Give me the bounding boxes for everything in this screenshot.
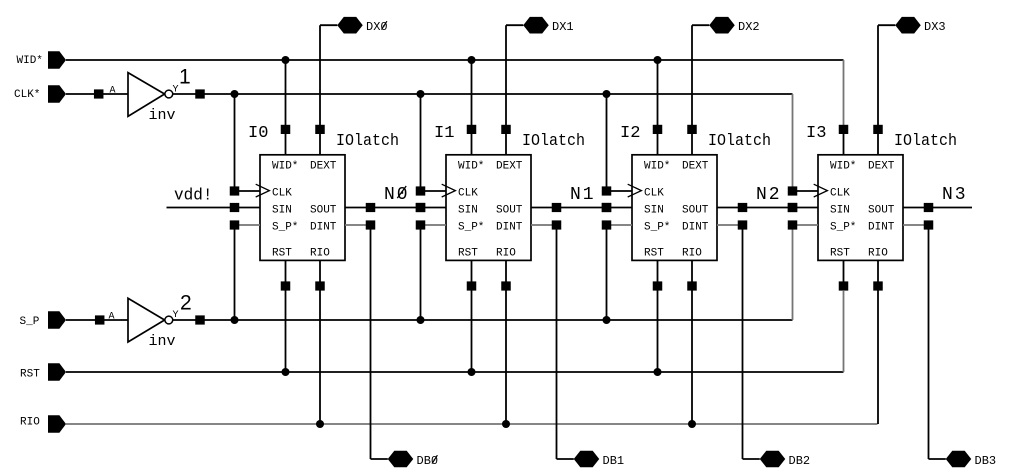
IOlatch I2 pin label WID* — [644, 160, 670, 172]
svg-text:DB1: DB1 — [603, 454, 625, 468]
junction on S_P* rail at I0 — [231, 316, 239, 324]
wire stub to I3 S_P* pin (gray) — [797, 224, 818, 226]
svg-text:I1: I1 — [434, 124, 455, 143]
wire DX3 to I3 DEXT pin — [877, 25, 879, 155]
solder square I1 CLK pin — [416, 186, 426, 195]
svg-text:IOlatch: IOlatch — [894, 131, 957, 150]
wire CLK rail corner down to I3 CLK pin (gray) — [792, 94, 794, 187]
wire stub to DB3 pin — [929, 458, 946, 460]
svg-text:RIO: RIO — [496, 248, 516, 260]
IOlatch I3 pin label DEXT — [868, 160, 895, 172]
svg-text:RST: RST — [830, 248, 850, 260]
IOlatch I1 pin label S_P* — [458, 221, 484, 233]
svg-text:RST: RST — [272, 248, 292, 260]
wire vdd! to I0 SIN — [167, 207, 261, 209]
junction on CLK rail at I0 — [231, 90, 239, 98]
instance name I3 — [806, 124, 827, 143]
IOlatch I0 pin label RST — [272, 248, 292, 260]
solder square I2 RST pin — [653, 281, 663, 290]
inverter U1 (inv) — [128, 73, 176, 124]
inverter U1 output label Y — [173, 85, 179, 96]
svg-text:I2: I2 — [620, 124, 641, 143]
wire net N2 from I2 SOUT to I3 SIN — [717, 207, 818, 209]
inverter U2 instance number 2 — [180, 292, 192, 315]
IOlatch I3 pin label S_P* — [830, 221, 856, 233]
solder square on CLK* wire — [94, 89, 104, 98]
wire I3 RST pin stub — [843, 260, 845, 286]
svg-text:N0: N0 — [384, 185, 410, 205]
wire I0 S_P* pin down to S_P* rail — [234, 229, 236, 320]
solder square I1 DINT pin — [552, 220, 562, 229]
wire RIO rail (gray) — [66, 423, 878, 425]
net label N1 — [570, 185, 596, 205]
svg-text:DINT: DINT — [496, 221, 523, 233]
wire I2 S_P* pin down to S_P* rail — [606, 229, 608, 320]
net label N3 — [942, 185, 968, 205]
wire stub to DB0 pin — [371, 458, 388, 460]
svg-text:DINT: DINT — [682, 221, 709, 233]
junction on WID* rail at I2 — [654, 56, 662, 64]
solder square on net N1 left — [552, 203, 562, 212]
wire CLK rail down to I0 CLK pin — [234, 94, 236, 187]
output pin DX2 — [709, 17, 735, 34]
wire I3 WID* pin stub — [843, 129, 845, 154]
svg-text:RIO: RIO — [310, 248, 330, 260]
svg-text:CLK: CLK — [830, 188, 850, 200]
junction on S_P* rail at I1 — [417, 316, 425, 324]
junction on RST rail at I0 — [282, 368, 290, 376]
cell name IOlatch of I1 — [522, 131, 585, 150]
output pin DB2 — [760, 451, 786, 468]
IOlatch I3 pin label WID* — [830, 160, 856, 172]
wire RST rail — [66, 371, 844, 373]
inverter U2 output label Y — [173, 310, 179, 321]
svg-text:2: 2 — [180, 292, 192, 315]
IOlatch I1 pin label WID* — [458, 160, 484, 172]
wire I2 DINT down to DB2 — [742, 229, 744, 459]
wire DX0 to I0 DEXT pin — [319, 25, 321, 155]
wire I2 RIO pin down to RIO rail — [691, 290, 693, 424]
IOlatch I3 pin label RIO — [868, 248, 888, 260]
solder square I0 DINT pin — [366, 220, 376, 229]
solder square on U1 output wire — [195, 89, 205, 98]
IOlatch I3 pin label DINT — [868, 221, 895, 233]
svg-text:inv: inv — [149, 107, 176, 124]
wire CLK* pin to inverter U1 input — [66, 93, 128, 95]
cell name IOlatch of I3 — [894, 131, 957, 150]
solder square I3 S_P* pin — [788, 220, 798, 229]
wire DX1 to I1 DEXT pin — [505, 25, 507, 155]
svg-text:DX1: DX1 — [552, 20, 574, 34]
IOlatch I1 pin label SIN — [458, 204, 478, 216]
svg-text:DEXT: DEXT — [310, 160, 337, 172]
solder square on S_P wire — [95, 315, 105, 324]
IOlatch I2 pin label DINT — [682, 221, 709, 233]
solder square I0 WID* pin — [281, 125, 291, 134]
inverter U2 input label A — [109, 312, 115, 323]
instance name I2 — [620, 124, 641, 143]
IOlatch I0 pin label SIN — [272, 204, 292, 216]
net label N0 — [384, 185, 410, 205]
svg-text:CLK*: CLK* — [14, 89, 40, 101]
svg-text:SIN: SIN — [644, 204, 664, 216]
wire I1 S_P* pin down to S_P* rail — [420, 229, 422, 320]
IOlatch I1 pin label RIO — [496, 248, 516, 260]
wire I1 RIO pin down to RIO rail — [505, 290, 507, 424]
inverter U2 (inv) — [128, 298, 176, 350]
pin label DB2 — [789, 454, 811, 468]
wire S_P* rail corner up to I3 S_P* pin (gray) — [792, 229, 794, 320]
wire I0 RST pin down to RST rail — [285, 290, 287, 372]
solder square I0 CLK pin — [230, 186, 240, 195]
IOlatch I2 pin label CLK — [644, 188, 664, 200]
solder square I2 RIO pin — [687, 281, 697, 290]
wire stub to DX2 pin — [692, 24, 709, 26]
output pin DX3 — [895, 17, 921, 34]
svg-text:DB2: DB2 — [789, 454, 811, 468]
wire I2 RST pin down to RST rail — [657, 290, 659, 372]
net label vdd! — [174, 187, 213, 206]
svg-text:1: 1 — [179, 66, 191, 89]
solder square I2 S_P* pin — [602, 220, 612, 229]
input pin RIO — [20, 415, 66, 433]
svg-text:DB3: DB3 — [975, 454, 997, 468]
solder square I2 DEXT pin — [687, 125, 697, 134]
solder square on net N2 right — [788, 203, 798, 212]
svg-text:N1: N1 — [570, 185, 596, 205]
solder square I3 CLK pin — [788, 186, 798, 195]
wire stub I3 DINT pin (gray) — [903, 224, 924, 226]
wire I0 DINT down to DB0 — [370, 229, 372, 459]
svg-text:DX0: DX0 — [366, 20, 388, 34]
wire RST rail corner up to I3 RST pin (gray) — [843, 290, 845, 372]
svg-text:RIO: RIO — [868, 248, 888, 260]
solder square I1 RIO pin — [501, 281, 511, 290]
solder square I0 SIN pin — [230, 203, 240, 212]
net label N2 — [756, 185, 782, 205]
svg-text:WID*: WID* — [458, 160, 484, 172]
solder square I0 S_P* pin — [230, 220, 240, 229]
solder square I1 WID* pin — [467, 125, 477, 134]
wire I1 RST pin stub — [471, 260, 473, 286]
wire WID* rail down to I0 WID* pin — [285, 60, 287, 155]
svg-text:S_P: S_P — [20, 316, 40, 328]
IOlatch I0 block body — [256, 155, 345, 261]
wire I3 DINT down to DB3 — [928, 229, 930, 459]
svg-text:WID*: WID* — [644, 160, 670, 172]
input pin CLK* — [14, 85, 66, 103]
wire inverter U2 output rail (S_P* net) — [173, 319, 793, 321]
svg-text:SOUT: SOUT — [682, 204, 709, 216]
svg-text:SIN: SIN — [830, 204, 850, 216]
output pin DB3 — [946, 451, 972, 468]
solder square on U2 output wire — [195, 315, 205, 324]
wire I0 RIO pin stub — [319, 260, 321, 286]
wire I1 RIO pin stub — [505, 260, 507, 286]
svg-text:SOUT: SOUT — [310, 204, 337, 216]
inverter U2 output bubble — [165, 316, 173, 324]
svg-text:RIO: RIO — [20, 417, 40, 429]
wire stub to DX3 pin — [878, 24, 895, 26]
wire stub I1 DINT pin (gray) — [531, 224, 552, 226]
solder square I3 RIO pin — [873, 281, 883, 290]
pin label DB0 — [417, 454, 439, 468]
inverter U1 instance number 1 — [179, 66, 191, 89]
wire stub to I3 CLK pin — [797, 190, 818, 192]
svg-text:DX2: DX2 — [738, 20, 760, 34]
svg-text:WID*: WID* — [272, 160, 298, 172]
svg-text:I0: I0 — [248, 124, 269, 143]
IOlatch I1 pin label DEXT — [496, 160, 523, 172]
IOlatch I3 pin label SIN — [830, 204, 850, 216]
input pin RST — [20, 363, 66, 381]
junction on RIO rail at I0 — [316, 420, 324, 428]
wire stub to I1 CLK pin — [425, 190, 446, 192]
IOlatch I3 block body — [814, 155, 903, 261]
cell name IOlatch of I2 — [708, 131, 771, 150]
wire I1 RST pin down to RST rail — [471, 290, 473, 372]
IOlatch I2 pin label SIN — [644, 204, 664, 216]
svg-text:A: A — [109, 312, 115, 323]
svg-text:inv: inv — [149, 333, 176, 350]
svg-text:S_P*: S_P* — [830, 221, 856, 233]
IOlatch I2 pin label RST — [644, 248, 664, 260]
output pin DB1 — [574, 451, 600, 468]
wire stub to DB2 pin — [743, 458, 760, 460]
solder square I3 DINT pin — [924, 220, 934, 229]
IOlatch I0 pin label RIO — [310, 248, 330, 260]
wire I0 RIO pin down to RIO rail — [319, 290, 321, 424]
wire WID* rail down to I1 WID* pin — [471, 60, 473, 155]
solder square on net N0 right — [416, 203, 426, 212]
wire stub to DB1 pin — [557, 458, 574, 460]
solder square I2 DINT pin — [738, 220, 748, 229]
wire CLK rail down to I2 CLK pin — [606, 94, 608, 187]
svg-text:SIN: SIN — [272, 204, 292, 216]
solder square on net N3 — [924, 203, 934, 212]
output pin DB0 — [388, 451, 414, 468]
svg-text:RST: RST — [458, 248, 478, 260]
svg-text:RST: RST — [20, 369, 40, 381]
pin label DB3 — [975, 454, 997, 468]
wire stub to DX1 pin — [506, 24, 523, 26]
svg-text:IOlatch: IOlatch — [336, 131, 399, 150]
solder square I1 SIN pin — [416, 203, 426, 212]
solder square I3 DEXT pin — [873, 125, 883, 134]
wire CLK rail down to I1 CLK pin — [420, 94, 422, 187]
wire net N3 from I3 SOUT — [903, 207, 972, 209]
output pin DX1 — [523, 17, 549, 34]
wire stub to I2 CLK pin — [611, 190, 632, 192]
solder square on net N0 left — [366, 203, 376, 212]
IOlatch I2 pin label SOUT — [682, 204, 709, 216]
svg-text:CLK: CLK — [458, 188, 478, 200]
IOlatch I0 pin label WID* — [272, 160, 298, 172]
wire RIO rail corner up to I3 RIO pin — [877, 290, 879, 424]
wire stub to I2 S_P* pin (gray) — [611, 224, 632, 226]
solder square I1 DEXT pin — [501, 125, 511, 134]
svg-text:CLK: CLK — [644, 188, 664, 200]
wire WID* rail corner down to I3 WID* pin (gray) — [843, 60, 845, 129]
svg-text:N3: N3 — [942, 185, 968, 205]
wire stub to I1 S_P* pin (gray) — [425, 224, 446, 226]
cell name IOlatch of I0 — [336, 131, 399, 150]
pin label DB1 — [603, 454, 625, 468]
junction on WID* rail at I1 — [468, 56, 476, 64]
svg-text:DEXT: DEXT — [496, 160, 523, 172]
IOlatch I1 pin label CLK — [458, 188, 478, 200]
instance name I0 — [248, 124, 269, 143]
svg-text:RST: RST — [644, 248, 664, 260]
wire inverter U1 output rail (CLK net) — [173, 93, 793, 95]
solder square I0 RST pin — [281, 281, 291, 290]
svg-text:DINT: DINT — [310, 221, 337, 233]
junction on RIO rail at I2 — [688, 420, 696, 428]
junction on RST rail at I1 — [468, 368, 476, 376]
solder square I0 DEXT pin — [315, 125, 325, 134]
pin label DX0 — [366, 20, 388, 34]
IOlatch I3 pin label CLK — [830, 188, 850, 200]
IOlatch I1 pin label RST — [458, 248, 478, 260]
IOlatch I2 pin label DEXT — [682, 160, 709, 172]
wire WID* rail down to I2 WID* pin — [657, 60, 659, 155]
wire I1 DINT down to DB1 — [556, 229, 558, 459]
IOlatch I3 pin label RST — [830, 248, 850, 260]
wire DX2 to I2 DEXT pin — [691, 25, 693, 155]
junction on CLK rail at I2 — [603, 90, 611, 98]
wire I3 RIO pin stub — [877, 260, 879, 286]
svg-text:vdd!: vdd! — [174, 187, 213, 206]
IOlatch I2 pin label S_P* — [644, 221, 670, 233]
solder square I0 RIO pin — [315, 281, 325, 290]
IOlatch I0 pin label SOUT — [310, 204, 337, 216]
wire stub I2 DINT pin (gray) — [717, 224, 738, 226]
svg-text:IOlatch: IOlatch — [708, 131, 771, 150]
svg-text:SOUT: SOUT — [868, 204, 895, 216]
wire stub to DX0 pin — [320, 24, 337, 26]
solder square I2 SIN pin — [602, 203, 612, 212]
IOlatch I0 pin label CLK — [272, 188, 292, 200]
solder square I2 WID* pin — [653, 125, 663, 134]
IOlatch I1 pin label DINT — [496, 221, 523, 233]
solder square I1 RST pin — [467, 281, 477, 290]
solder square I3 RST pin — [839, 281, 849, 290]
wire I2 RIO pin stub — [691, 260, 693, 286]
wire S_P pin to inverter U2 input — [66, 319, 128, 321]
pin label DX2 — [738, 20, 760, 34]
input pin S_P — [20, 311, 67, 329]
junction on CLK rail at I1 — [417, 90, 425, 98]
wire stub to I0 CLK pin — [239, 190, 260, 192]
svg-text:DEXT: DEXT — [868, 160, 895, 172]
solder square I3 WID* pin — [839, 125, 849, 134]
svg-text:S_P*: S_P* — [644, 221, 670, 233]
svg-text:A: A — [110, 86, 116, 97]
IOlatch I0 pin label S_P* — [272, 221, 298, 233]
pin label DX3 — [924, 20, 946, 34]
svg-text:WID*: WID* — [17, 55, 43, 67]
inverter U1 input label A — [110, 86, 116, 97]
svg-text:N2: N2 — [756, 185, 782, 205]
svg-text:DEXT: DEXT — [682, 160, 709, 172]
pin label DX1 — [552, 20, 574, 34]
svg-text:CLK: CLK — [272, 188, 292, 200]
svg-text:IOlatch: IOlatch — [522, 131, 585, 150]
junction on S_P* rail at I2 — [603, 316, 611, 324]
svg-text:DX3: DX3 — [924, 20, 946, 34]
junction on WID* rail at I0 — [282, 56, 290, 64]
instance name I1 — [434, 124, 455, 143]
svg-text:S_P*: S_P* — [458, 221, 484, 233]
svg-text:SOUT: SOUT — [496, 204, 523, 216]
svg-text:WID*: WID* — [830, 160, 856, 172]
IOlatch I0 pin label DEXT — [310, 160, 337, 172]
wire I2 RST pin stub — [657, 260, 659, 286]
junction on RIO rail at I1 — [502, 420, 510, 428]
IOlatch I2 pin label RIO — [682, 248, 702, 260]
svg-text:I3: I3 — [806, 124, 827, 143]
IOlatch I2 block body — [628, 155, 717, 261]
wire I0 RST pin stub — [285, 260, 287, 286]
solder square on net N2 left — [738, 203, 748, 212]
output pin DX0 — [337, 17, 363, 34]
wire stub I0 DINT pin (gray) — [345, 224, 366, 226]
wire WID* rail — [66, 59, 844, 61]
svg-text:RIO: RIO — [682, 248, 702, 260]
input pin WID* — [17, 51, 67, 69]
wire net N1 from I1 SOUT to I2 SIN — [531, 207, 632, 209]
solder square I1 S_P* pin — [416, 220, 426, 229]
wire stub to I0 S_P* pin (gray) — [239, 224, 260, 226]
IOlatch I0 pin label DINT — [310, 221, 337, 233]
inverter U1 output bubble — [165, 90, 173, 98]
solder square I3 SIN pin — [788, 203, 798, 212]
IOlatch I1 pin label SOUT — [496, 204, 523, 216]
IOlatch I3 pin label SOUT — [868, 204, 895, 216]
wire net N0 from I0 SOUT to I1 SIN — [345, 207, 446, 209]
svg-text:S_P*: S_P* — [272, 221, 298, 233]
svg-text:DINT: DINT — [868, 221, 895, 233]
solder square on net N1 right — [602, 203, 612, 212]
junction on RST rail at I2 — [654, 368, 662, 376]
solder square I2 CLK pin — [602, 186, 612, 195]
IOlatch I1 block body — [442, 155, 531, 261]
svg-text:DB0: DB0 — [417, 454, 439, 468]
svg-text:SIN: SIN — [458, 204, 478, 216]
